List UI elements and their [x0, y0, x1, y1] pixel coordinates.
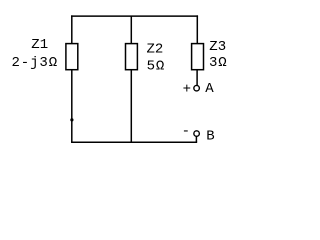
- terminal B circle: [194, 131, 200, 137]
- wire bottom-left corner fill: [71, 140, 73, 143]
- svg-text:Z1: Z1: [31, 37, 48, 53]
- wire Z1 lower lead: [71, 70, 73, 143]
- svg-text:-: -: [182, 124, 190, 140]
- junction dot on Z1 lower lead: [70, 118, 73, 121]
- resistor Z3: [192, 44, 204, 70]
- terminal A circle: [194, 85, 200, 91]
- svg-text:Z3: Z3: [209, 39, 226, 55]
- wire Z3 lower lead: [196, 70, 198, 85]
- svg-text:3Ω: 3Ω: [209, 55, 228, 71]
- wire bottom bus: [71, 141, 197, 143]
- wire Z2 upper lead: [130, 16, 132, 43]
- wire Z2 lower lead: [130, 70, 132, 143]
- svg-text:B: B: [206, 128, 214, 144]
- svg-text:5Ω: 5Ω: [147, 59, 166, 75]
- wire Z3 upper lead: [196, 15, 198, 43]
- wire terminal B riser: [195, 136, 197, 142]
- wire top bus: [71, 15, 198, 17]
- svg-text:2-j3Ω: 2-j3Ω: [12, 55, 59, 71]
- resistor Z1: [66, 44, 78, 70]
- svg-text:+: +: [183, 81, 191, 97]
- wire Z1 upper lead: [71, 15, 73, 43]
- svg-text:Z2: Z2: [147, 42, 164, 58]
- resistor Z2: [126, 44, 138, 70]
- svg-text:A: A: [205, 81, 214, 97]
